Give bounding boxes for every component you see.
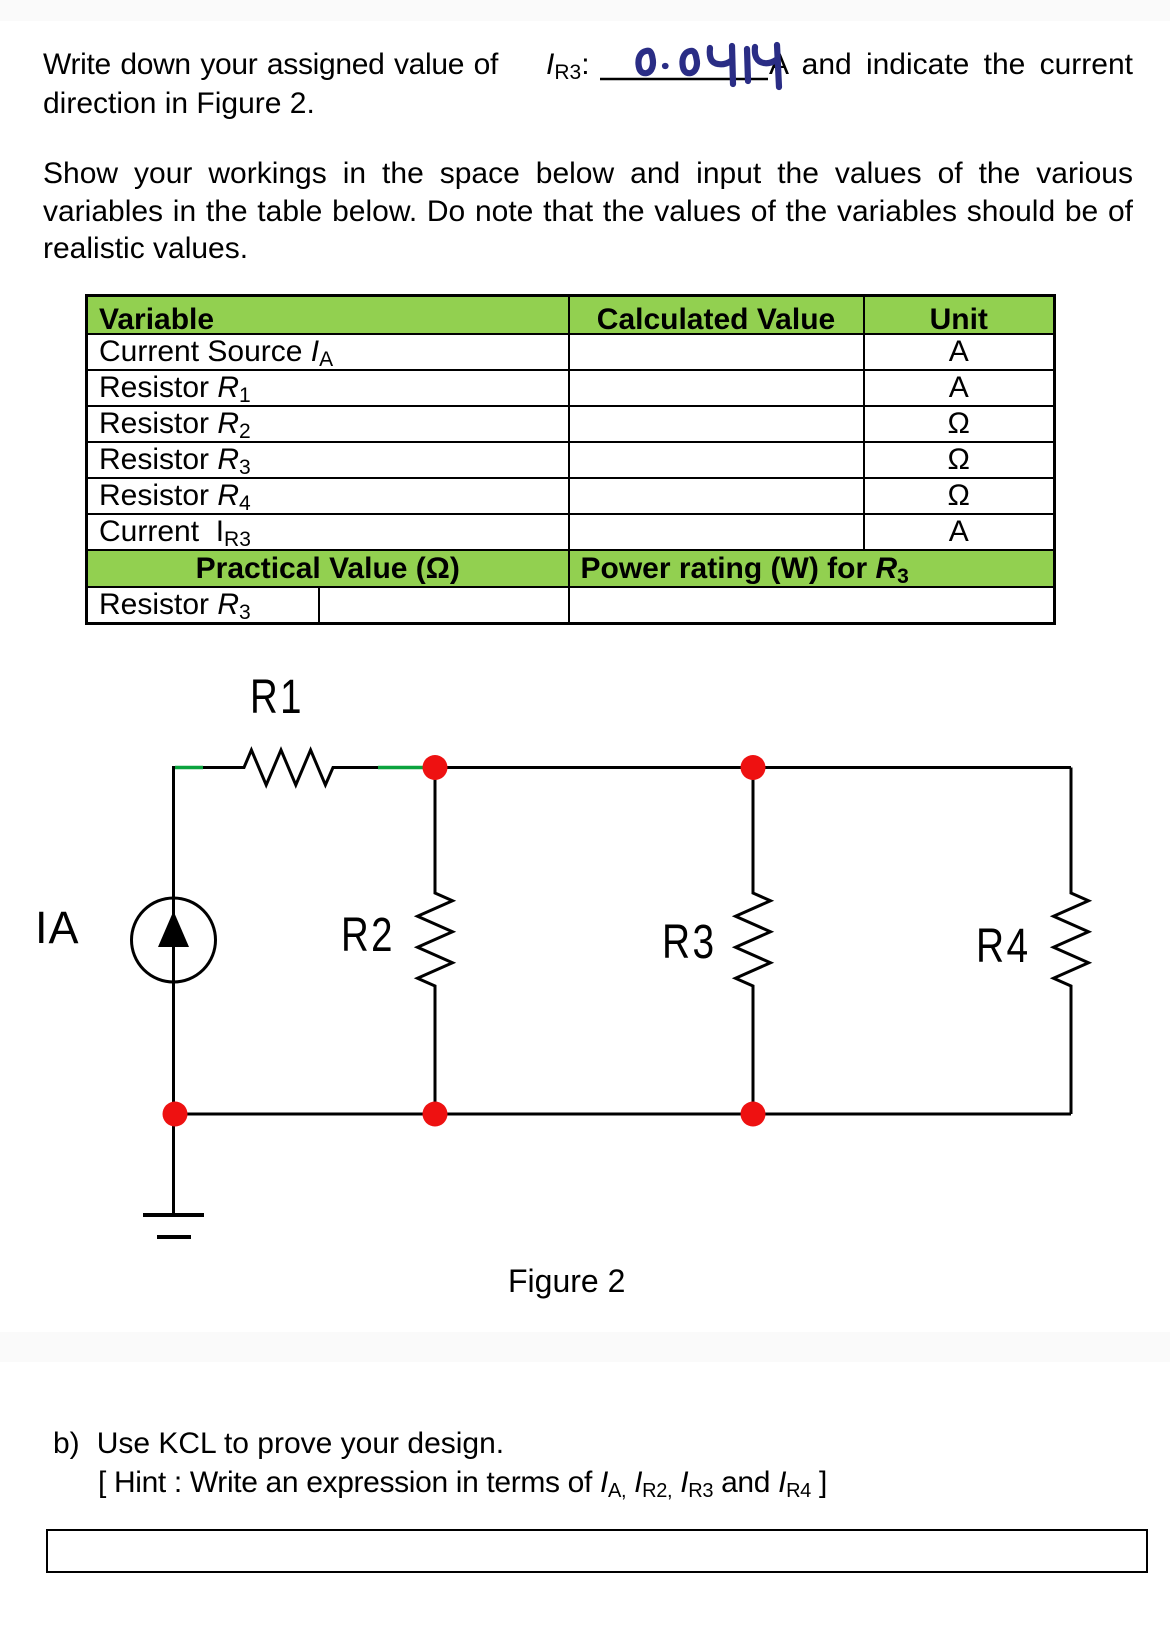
svg-text:R2: R2 [341,909,395,962]
svg-text:R4: R4 [976,919,1031,973]
svg-text:R1: R1 [250,671,304,724]
svg-text:IA: IA [35,902,80,953]
svg-text:R3: R3 [662,915,717,969]
